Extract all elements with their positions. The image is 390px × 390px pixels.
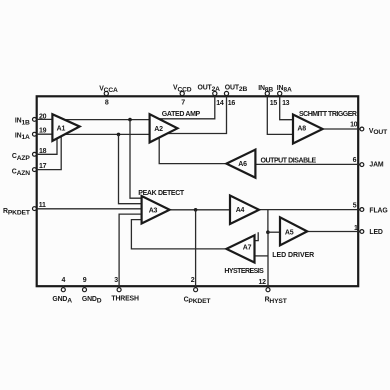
svg-text:19: 19 <box>39 128 47 135</box>
IC package border <box>37 96 359 286</box>
wire RPKDET pin 11 to A3 input 3 <box>34 208 141 210</box>
op-amp A5 led driver <box>280 217 307 245</box>
pin 11 <box>33 207 37 211</box>
svg-text:VCCA: VCCA <box>99 85 118 94</box>
op-amp A8 schmitt trigger <box>293 115 323 144</box>
svg-text:2: 2 <box>191 277 195 284</box>
svg-text:OUT2A: OUT2A <box>198 84 221 93</box>
wire A2 lower tap to OUT2B pin 16 <box>167 96 226 134</box>
svg-text:A4: A4 <box>236 207 245 214</box>
svg-text:16: 16 <box>228 100 236 107</box>
svg-text:18: 18 <box>39 148 47 155</box>
svg-text:12: 12 <box>259 279 267 286</box>
svg-text:1: 1 <box>354 225 358 232</box>
wire IN8A pin 13 down to A8 upper input <box>280 96 293 120</box>
wire junction down to A3 input 2 <box>119 134 142 203</box>
svg-text:LED DRIVER: LED DRIVER <box>272 252 314 259</box>
pin 16 <box>224 91 228 95</box>
svg-text:LED: LED <box>369 229 383 236</box>
op-amp A4 <box>230 196 259 225</box>
wire A1 lower output tap to A2 lower input <box>65 133 150 135</box>
pin 6 <box>360 163 364 167</box>
op-amp A7 hysteresis <box>226 235 254 262</box>
svg-text:GNDD: GNDD <box>82 296 102 305</box>
svg-text:PEAK DETECT: PEAK DETECT <box>138 190 185 197</box>
svg-text:CAZP: CAZP <box>12 153 30 162</box>
svg-text:11: 11 <box>39 202 46 209</box>
svg-text:3: 3 <box>114 277 118 284</box>
pin 7 <box>180 91 184 95</box>
pin 13 <box>278 91 282 95</box>
svg-text:A7: A7 <box>243 244 252 251</box>
pin 3 <box>117 288 121 292</box>
svg-text:A3: A3 <box>149 208 158 215</box>
wire A1 upper output tap to A2 upper input <box>64 119 150 121</box>
node junction A4 output tap <box>266 230 270 234</box>
svg-text:A6: A6 <box>238 161 247 168</box>
svg-text:IN8B: IN8B <box>258 85 273 94</box>
wire A7 upper input stub <box>255 232 259 240</box>
node junction on A3 output <box>194 208 198 212</box>
wire A6 output to A2 gate <box>159 138 226 164</box>
wire CAZN pin17 to A1 bottom edge <box>34 136 61 170</box>
svg-text:10: 10 <box>350 121 358 128</box>
svg-text:17: 17 <box>39 163 47 170</box>
svg-text:GATED AMP: GATED AMP <box>162 111 201 118</box>
pin 1 <box>360 230 364 234</box>
pin 17 <box>33 168 37 172</box>
pin 8 <box>104 91 108 95</box>
wire junction down to RHYST pin 12 <box>267 232 269 288</box>
svg-text:IN1B: IN1B <box>15 118 30 127</box>
wire CAZP pin18 to A1 bottom edge <box>34 138 57 154</box>
pin 18 <box>33 152 37 156</box>
wire GND pin 4 stub <box>62 286 64 288</box>
svg-text:6: 6 <box>353 157 357 164</box>
svg-text:A1: A1 <box>57 126 66 133</box>
wire A5 output to LED pin 1 <box>307 231 360 233</box>
op-amp A3 peak detect <box>142 196 170 224</box>
svg-text:A2: A2 <box>154 126 163 133</box>
wire A8 output to VOUT pin 10 <box>323 128 361 130</box>
wire THRESH pin 3 up to A3 input 4 <box>119 214 142 288</box>
wire JAM pin 6 to A6 input <box>255 163 360 165</box>
pin 14 <box>213 91 217 95</box>
pin 5 <box>360 208 364 212</box>
wire junction down to CPKDET pin 2 <box>195 210 197 288</box>
svg-text:OUTPUT DISABLE: OUTPUT DISABLE <box>261 157 317 164</box>
svg-text:RHYST: RHYST <box>265 296 288 305</box>
svg-text:8: 8 <box>105 99 109 106</box>
wire IN1A stub pin19 to A1 <box>34 133 52 135</box>
pin 20 <box>33 118 37 122</box>
pin 12 <box>266 288 270 292</box>
svg-text:RPKDET: RPKDET <box>3 208 31 217</box>
wire IN1B stub pin20 to A1 <box>34 118 52 120</box>
svg-text:VCCD: VCCD <box>173 85 192 94</box>
node junction on A1 lower output <box>117 133 121 137</box>
svg-text:A5: A5 <box>285 230 294 237</box>
wire GND pin 9 stub <box>84 286 86 288</box>
wire IN8B pin 15 down to A8 lower input <box>267 96 293 134</box>
svg-text:THRESH: THRESH <box>111 296 139 303</box>
wire junction to A5 input <box>268 231 280 233</box>
svg-text:13: 13 <box>282 100 290 107</box>
op-amp A6 output disable <box>226 150 255 178</box>
pin 10 <box>360 127 364 131</box>
pin 9 <box>83 288 87 292</box>
wire A4 output to FLAG pin 5 <box>259 209 360 211</box>
svg-text:IN1A: IN1A <box>15 132 30 141</box>
pin 2 <box>194 288 198 292</box>
op-amp A2 gated amp <box>150 114 178 142</box>
svg-text:A8: A8 <box>297 125 306 132</box>
svg-text:GNDA: GNDA <box>52 296 72 305</box>
svg-text:5: 5 <box>353 203 357 210</box>
svg-text:4: 4 <box>62 277 66 284</box>
pin 15 <box>265 91 269 95</box>
svg-text:HYSTERESIS: HYSTERESIS <box>224 268 264 275</box>
svg-text:JAM: JAM <box>369 162 384 169</box>
svg-text:CPKDET: CPKDET <box>184 296 212 305</box>
pin 4 <box>61 288 65 292</box>
wire A3 output to A4 input <box>170 209 230 211</box>
svg-text:CAZN: CAZN <box>12 168 30 177</box>
svg-text:7: 7 <box>181 99 185 106</box>
svg-text:FLAG: FLAG <box>369 207 387 214</box>
svg-text:15: 15 <box>270 100 278 107</box>
wire A7 output feedback to A3 input 5 <box>131 220 226 249</box>
op-amp A1 <box>52 114 79 141</box>
wire junction down to A3 input 1 <box>130 120 142 199</box>
wire A2 upper tap to OUT2A pin 14 <box>159 96 215 119</box>
svg-text:14: 14 <box>216 100 224 107</box>
wire A7 lower input stub <box>255 255 269 257</box>
svg-text:VOUT: VOUT <box>369 128 388 136</box>
svg-text:9: 9 <box>83 277 87 284</box>
svg-text:SCHMITT TRIGGER: SCHMITT TRIGGER <box>299 111 357 118</box>
svg-text:20: 20 <box>39 114 47 121</box>
wire A4 output tap down <box>267 210 269 233</box>
pin 19 <box>33 132 37 136</box>
node junction on A1 upper output <box>128 118 132 122</box>
